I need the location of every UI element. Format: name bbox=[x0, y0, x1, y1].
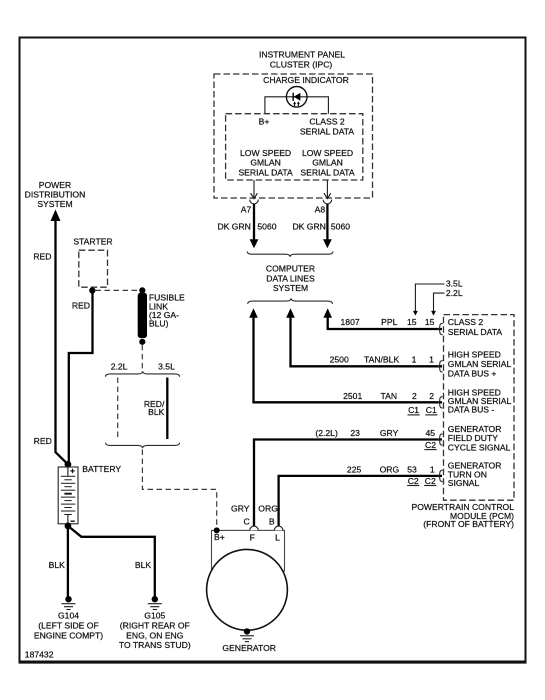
svg-text:RED: RED bbox=[72, 300, 90, 310]
svg-text:SIGNAL: SIGNAL bbox=[448, 478, 480, 488]
svg-text:C2: C2 bbox=[408, 476, 419, 486]
svg-text:2501: 2501 bbox=[343, 391, 362, 401]
svg-text:SYSTEM: SYSTEM bbox=[273, 283, 308, 293]
svg-text:C2: C2 bbox=[425, 440, 436, 450]
svg-text:23: 23 bbox=[350, 428, 360, 438]
svg-text:RED: RED bbox=[34, 436, 52, 446]
svg-text:L: L bbox=[275, 533, 280, 543]
svg-text:BLK: BLK bbox=[148, 407, 165, 417]
svg-text:GRY: GRY bbox=[380, 428, 399, 438]
svg-text:2.2L: 2.2L bbox=[446, 288, 463, 298]
svg-text:DATA BUS -: DATA BUS - bbox=[448, 405, 495, 415]
svg-text:G105: G105 bbox=[144, 611, 165, 621]
svg-text:2.2L: 2.2L bbox=[111, 362, 128, 372]
svg-text:SERIAL DATA: SERIAL DATA bbox=[448, 327, 503, 337]
svg-text:3.5L: 3.5L bbox=[446, 278, 463, 288]
svg-text:SERIAL DATA: SERIAL DATA bbox=[300, 168, 355, 178]
svg-text:TAN: TAN bbox=[381, 391, 398, 401]
svg-text:DISTRIBUTION: DISTRIBUTION bbox=[25, 190, 86, 200]
svg-text:5060: 5060 bbox=[331, 221, 350, 231]
svg-text:187432: 187432 bbox=[25, 649, 54, 659]
svg-text:53: 53 bbox=[407, 465, 417, 475]
svg-text:ENGINE COMPT): ENGINE COMPT) bbox=[34, 630, 103, 640]
svg-text:BATTERY: BATTERY bbox=[82, 464, 121, 474]
svg-text:(LEFT SIDE OF: (LEFT SIDE OF bbox=[38, 620, 98, 630]
svg-text:CLASS 2: CLASS 2 bbox=[448, 317, 484, 327]
svg-text:CYCLE SIGNAL: CYCLE SIGNAL bbox=[448, 442, 511, 452]
svg-text:HIGH SPEED: HIGH SPEED bbox=[448, 350, 501, 360]
svg-text:CHARGE INDICATOR: CHARGE INDICATOR bbox=[263, 75, 349, 85]
svg-text:CLUSTER (IPC): CLUSTER (IPC) bbox=[270, 59, 333, 69]
svg-text:(2.2L): (2.2L) bbox=[315, 428, 338, 438]
svg-text:DATA LINES: DATA LINES bbox=[266, 273, 315, 283]
svg-text:TAN/BLK: TAN/BLK bbox=[364, 355, 399, 365]
svg-text:1: 1 bbox=[429, 355, 434, 365]
svg-text:SYSTEM: SYSTEM bbox=[37, 199, 72, 209]
svg-text:2: 2 bbox=[412, 391, 417, 401]
svg-text:CLASS 2: CLASS 2 bbox=[309, 117, 345, 127]
svg-text:ENG, ON ENG: ENG, ON ENG bbox=[126, 630, 184, 640]
svg-text:SERIAL DATA: SERIAL DATA bbox=[300, 126, 355, 136]
svg-text:LOW SPEED: LOW SPEED bbox=[240, 148, 291, 158]
svg-text:3.5L: 3.5L bbox=[158, 362, 175, 372]
svg-text:DK GRN: DK GRN bbox=[217, 221, 250, 231]
svg-text:PPL: PPL bbox=[381, 317, 397, 327]
svg-text:GENERATOR: GENERATOR bbox=[222, 643, 276, 653]
svg-text:COMPUTER: COMPUTER bbox=[266, 264, 315, 274]
svg-text:C1: C1 bbox=[408, 405, 419, 415]
svg-text:TO TRANS STUD): TO TRANS STUD) bbox=[119, 640, 191, 650]
svg-text:B+: B+ bbox=[214, 532, 225, 542]
svg-text:1807: 1807 bbox=[341, 317, 360, 327]
svg-text:15: 15 bbox=[425, 317, 435, 327]
svg-text:SERIAL DATA: SERIAL DATA bbox=[238, 168, 293, 178]
svg-text:DATA BUS +: DATA BUS + bbox=[448, 369, 497, 379]
svg-text:5060: 5060 bbox=[257, 221, 276, 231]
svg-text:GMLAN: GMLAN bbox=[312, 158, 343, 168]
svg-text:BLK: BLK bbox=[135, 560, 152, 570]
svg-text:BLU): BLU) bbox=[149, 319, 169, 329]
svg-text:A8: A8 bbox=[315, 205, 326, 215]
svg-text:POWER: POWER bbox=[39, 180, 71, 190]
svg-text:C1: C1 bbox=[426, 405, 437, 415]
svg-text:(RIGHT REAR OF: (RIGHT REAR OF bbox=[120, 620, 190, 630]
svg-text:(FRONT OF BATTERY): (FRONT OF BATTERY) bbox=[423, 519, 514, 529]
svg-text:BLK: BLK bbox=[49, 560, 66, 570]
svg-text:G104: G104 bbox=[58, 611, 79, 621]
svg-text:ORG: ORG bbox=[258, 503, 278, 513]
svg-text:DK GRN: DK GRN bbox=[292, 221, 325, 231]
svg-text:GRY: GRY bbox=[231, 503, 250, 513]
svg-text:GMLAN SERIAL: GMLAN SERIAL bbox=[448, 359, 512, 369]
svg-text:1: 1 bbox=[430, 465, 435, 475]
svg-text:45: 45 bbox=[426, 428, 436, 438]
svg-text:LOW SPEED: LOW SPEED bbox=[302, 148, 353, 158]
svg-text:2500: 2500 bbox=[330, 355, 349, 365]
svg-text:2: 2 bbox=[429, 391, 434, 401]
svg-text:A7: A7 bbox=[241, 205, 252, 215]
svg-text:C: C bbox=[243, 516, 249, 526]
svg-text:ORG: ORG bbox=[380, 465, 400, 475]
svg-text:F: F bbox=[250, 533, 255, 543]
svg-text:225: 225 bbox=[347, 465, 362, 475]
svg-text:STARTER: STARTER bbox=[73, 236, 112, 246]
svg-text:B+: B+ bbox=[259, 117, 270, 127]
svg-text:INSTRUMENT PANEL: INSTRUMENT PANEL bbox=[259, 50, 345, 60]
svg-text:1: 1 bbox=[412, 355, 417, 365]
svg-text:RED: RED bbox=[33, 251, 51, 261]
svg-text:C2: C2 bbox=[425, 476, 436, 486]
svg-text:B: B bbox=[269, 516, 275, 526]
svg-text:GMLAN: GMLAN bbox=[250, 158, 281, 168]
svg-text:15: 15 bbox=[407, 317, 417, 327]
